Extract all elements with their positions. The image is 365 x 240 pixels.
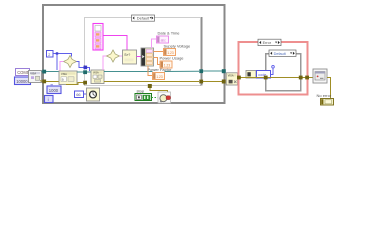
string function star 1 bbox=[64, 56, 77, 68]
svg-text:S»?: S»? bbox=[124, 53, 130, 57]
svg-text:VISA: VISA bbox=[93, 72, 99, 75]
wire pink VISA read string up bbox=[103, 56, 107, 70]
string append icon in red case bbox=[246, 71, 256, 79]
wire boolean dashed bbox=[152, 97, 159, 99]
svg-text:Power Usage: Power Usage bbox=[160, 56, 185, 61]
inner case structure (gray, in red case) bbox=[266, 54, 301, 91]
svg-text:Power Factor: Power Factor bbox=[148, 67, 172, 72]
VISA configure serial port icon bbox=[29, 71, 42, 83]
svg-text:66: 66 bbox=[76, 92, 81, 97]
wire olive into VISA close bbox=[226, 81, 228, 83]
VISA write / property node icon bbox=[59, 71, 77, 85]
junction dot blue bbox=[56, 52, 58, 54]
wire pink to Date & Time bbox=[152, 39, 157, 48]
tunnel olive on loop border bbox=[42, 80, 46, 84]
error case structure (red) bbox=[239, 42, 308, 95]
VISA read icon bbox=[91, 70, 104, 84]
loop condition terminal (stop if true) bbox=[158, 92, 171, 103]
VISA resource name constant COM bbox=[16, 69, 30, 76]
wire olive from handler down bbox=[327, 78, 331, 98]
svg-text:COM5: COM5 bbox=[17, 70, 30, 75]
svg-text:2: 2 bbox=[48, 53, 50, 57]
svg-text:Supply Voltage: Supply Voltage bbox=[164, 43, 191, 48]
wire teal to property node bbox=[46, 71, 59, 73]
baud rate constant bbox=[15, 77, 31, 85]
wire magenta scan to unbundle bbox=[137, 56, 142, 58]
tunnel blue on case border bbox=[84, 66, 88, 70]
numeric constant code bbox=[257, 71, 271, 79]
wire blue code hook bbox=[271, 68, 274, 75]
tunnel olive red case right bbox=[305, 76, 309, 80]
inner case selector label bbox=[269, 50, 296, 56]
case structure (Default) bbox=[85, 18, 202, 86]
svg-text:abc: abc bbox=[161, 39, 167, 43]
wait until next ms multiple icon bbox=[87, 88, 100, 101]
svg-text:stop: stop bbox=[137, 88, 145, 93]
wire error (olive) from configure into loop bbox=[40, 80, 43, 83]
tunnel olive on case bottom border bbox=[148, 84, 152, 88]
tunnel olive on case right border bbox=[199, 80, 203, 84]
svg-text:10000: 10000 bbox=[16, 79, 28, 84]
svg-text:i: i bbox=[48, 97, 49, 102]
wire magenta cluster to scan bbox=[103, 36, 127, 51]
svg-text:Default: Default bbox=[274, 52, 287, 56]
svg-text:a: a bbox=[62, 78, 64, 82]
cluster constant (commands) bbox=[93, 24, 103, 51]
boolean terminal stop bbox=[135, 94, 152, 101]
wire olive to property node bbox=[46, 80, 59, 82]
svg-text:Error: Error bbox=[263, 41, 272, 45]
wire VISA resource (teal) into loop bbox=[42, 71, 47, 73]
error out terminal bbox=[321, 99, 334, 106]
svg-text:VISA: VISA bbox=[61, 72, 67, 76]
scan from string icon bbox=[123, 50, 137, 64]
tunnel olive on case border bbox=[83, 81, 87, 85]
tunnel olive inner case right bbox=[299, 76, 303, 80]
svg-text:Default: Default bbox=[137, 16, 150, 21]
wire pink from star1 to VISA write bbox=[60, 62, 64, 71]
tunnel teal on loop border bbox=[42, 70, 46, 74]
svg-text:VISA: VISA bbox=[30, 71, 36, 75]
wire pink star2 to scan bbox=[120, 55, 123, 57]
string function star 2 bbox=[107, 50, 120, 62]
error case selector label bbox=[258, 39, 281, 45]
indicator terminal Supply Voltage bbox=[164, 49, 176, 56]
wire olive hook to condition bbox=[150, 88, 168, 94]
tunnel olive red case left bbox=[237, 76, 241, 80]
loop iteration terminal i bbox=[45, 96, 54, 103]
wire olive across case bbox=[104, 81, 199, 83]
numeric constant 1000 bbox=[47, 84, 61, 93]
wire orange to Supply Voltage bbox=[154, 51, 164, 53]
indicator terminal Power Factor bbox=[153, 73, 165, 80]
svg-text:1000: 1000 bbox=[49, 88, 59, 93]
tunnel teal on case right border bbox=[199, 69, 203, 73]
VISA close icon bbox=[226, 73, 237, 85]
svg-text:VISA: VISA bbox=[228, 75, 234, 78]
wire teal across case bbox=[104, 71, 153, 73]
svg-text:Date & Time: Date & Time bbox=[158, 30, 181, 35]
unbundle by name node bbox=[141, 48, 154, 66]
wire blue star1 right to case bbox=[77, 62, 90, 72]
wire orange to Power Usage bbox=[154, 58, 161, 65]
case selector label Default bbox=[132, 15, 155, 21]
wire olive case to loop border bbox=[203, 81, 222, 83]
indicator terminal Date & Time bbox=[157, 36, 169, 43]
case right border solid bbox=[201, 17, 203, 86]
wire blue to wait bbox=[84, 93, 87, 95]
tunnel olive inner case left bbox=[264, 76, 268, 80]
wire orange to Power Factor bbox=[148, 66, 152, 76]
tunnel teal on case border bbox=[83, 70, 87, 74]
wire teal through case border bbox=[77, 71, 91, 73]
numeric constant 60 bbox=[75, 91, 84, 98]
simple error handler icon bbox=[313, 69, 327, 83]
wire olive across red case bbox=[239, 77, 314, 79]
numeric constant (top left in loop) bbox=[47, 51, 54, 58]
svg-text:1.23: 1.23 bbox=[167, 51, 173, 55]
while loop bbox=[43, 5, 225, 103]
wire teal case to loop border bbox=[203, 70, 222, 72]
indicator terminal Power Usage bbox=[160, 61, 172, 68]
wire olive from write to case bbox=[66, 83, 87, 85]
tunnel olive on loop right border bbox=[222, 80, 226, 84]
svg-text:No error: No error bbox=[317, 93, 332, 98]
tunnel teal on loop right border bbox=[222, 69, 226, 73]
wire blue branch down bbox=[56, 54, 58, 71]
wire blue from constant bbox=[53, 54, 72, 57]
svg-text:1.23: 1.23 bbox=[156, 75, 162, 79]
